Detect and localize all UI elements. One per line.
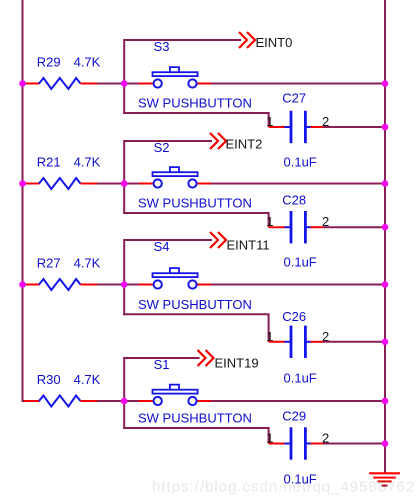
wire: capacitor C29 pin 2 to right rail (323, 443, 385, 445)
svg-text:EINT19: EINT19 (215, 355, 259, 370)
pushbutton switch S3 SW PUSHBUTTON (139, 67, 211, 88)
svg-text:EINT11: EINT11 (227, 238, 270, 253)
wire: node to capacitor C27 pin 1 (123, 113, 268, 127)
junction: node of S4 (121, 281, 128, 288)
svg-text:SW PUSHBUTTON: SW PUSHBUTTON (138, 96, 252, 111)
resistor label R27 (37, 256, 61, 271)
capacitor designator C28 (282, 193, 306, 208)
switch type label SW PUSHBUTTON (138, 196, 252, 211)
junction: right rail / capacitor C26 (382, 339, 389, 346)
wire: resistor to node (97, 83, 124, 85)
resistor value 4.7K (74, 256, 101, 271)
svg-text:4.7K: 4.7K (74, 256, 101, 271)
pin number 1 of C28 (266, 214, 273, 229)
wire: node to switch pin 1 (124, 83, 139, 85)
svg-text:S4: S4 (154, 239, 170, 254)
junction: node of S3 (121, 80, 128, 87)
capacitor C26 0.1uF (269, 326, 323, 358)
resistor label R30 (37, 372, 61, 387)
wire: capacitor C28 pin 2 to right rail (323, 226, 385, 228)
wire: node to capacitor C29 pin 1 (123, 428, 268, 444)
resistor value 4.7K (74, 55, 101, 70)
pushbutton switch S4 SW PUSHBUTTON (139, 268, 211, 289)
net label EINT0 (256, 35, 293, 50)
svg-text:S3: S3 (154, 39, 170, 54)
wire: switch pin 2 to right rail (211, 83, 385, 85)
wire: node to capacitor C26 pin 1 (123, 314, 268, 342)
switch designator S1 (154, 357, 170, 372)
svg-text:0.1uF: 0.1uF (284, 255, 317, 270)
wire: node to switch pin 1 (124, 284, 139, 286)
capacitor value 0.1uF (284, 155, 317, 170)
pin number 2 of C28 (322, 214, 329, 229)
junction: right rail / switch S2 (382, 180, 389, 187)
svg-text:0.1uF: 0.1uF (284, 472, 317, 487)
svg-text:R29: R29 (37, 55, 61, 70)
junction: node of S1 (121, 398, 128, 405)
junction: right rail / capacitor C27 (382, 124, 389, 131)
wire: resistor to node (97, 400, 124, 402)
wire: node vertical for S4 stage (123, 239, 125, 315)
svg-text:C26: C26 (282, 309, 306, 324)
switch designator S2 (154, 140, 170, 155)
wire: node to EINT11 port (123, 239, 212, 241)
resistor R29 4.7K (24, 78, 97, 89)
wire: right vertical ground rail (384, 0, 386, 473)
resistor R27 4.7K (24, 279, 97, 290)
wire: node to switch pin 1 (124, 400, 139, 402)
wire: node to switch pin 1 (124, 183, 139, 185)
svg-text:R21: R21 (37, 155, 61, 170)
capacitor value 0.1uF (284, 472, 317, 487)
svg-text:SW PUSHBUTTON: SW PUSHBUTTON (138, 297, 252, 312)
junction: node of S2 (121, 180, 128, 187)
junction: right rail / switch S3 (382, 80, 389, 87)
wire: switch pin 2 to right rail (211, 400, 385, 402)
junction: left rail / resistor R27 (19, 281, 26, 288)
resistor R21 4.7K (24, 178, 97, 189)
svg-text:R30: R30 (37, 372, 61, 387)
ground (369, 473, 400, 485)
wire: capacitor C26 pin 2 to right rail (323, 341, 385, 343)
wire: node to capacitor C28 pin 1 (123, 213, 268, 227)
wire: resistor to node (97, 284, 124, 286)
wire: node vertical for S2 stage (123, 140, 125, 214)
junction: right rail / capacitor C28 (382, 224, 389, 231)
svg-text:C27: C27 (282, 91, 306, 106)
junction: right rail / switch S1 (382, 398, 389, 405)
junction: right rail / switch S4 (382, 281, 389, 288)
capacitor C27 0.1uF (269, 111, 323, 143)
wire: node to EINT19 port (123, 357, 199, 359)
capacitor designator C26 (282, 309, 306, 324)
wire: node to EINT0 port (123, 39, 241, 41)
wire: switch pin 2 to right rail (211, 284, 385, 286)
svg-text:S1: S1 (154, 357, 170, 372)
pushbutton switch S1 SW PUSHBUTTON (139, 385, 211, 406)
junction: left rail / resistor R29 (19, 80, 26, 87)
svg-text:EINT2: EINT2 (226, 137, 263, 152)
wire: resistor to node (97, 183, 124, 185)
capacitor C29 0.1uF (269, 427, 323, 459)
pin number 1 of C26 (266, 329, 273, 344)
switch designator S3 (154, 39, 170, 54)
wire: node vertical for S3 stage (123, 39, 125, 114)
port chevron EINT19 (198, 350, 214, 366)
svg-text:R27: R27 (37, 256, 61, 271)
svg-text:0.1uF: 0.1uF (284, 371, 317, 386)
wire: node vertical for S1 stage (123, 357, 125, 429)
pin number 2 of C26 (322, 329, 329, 344)
switch designator S4 (154, 239, 170, 254)
switch type label SW PUSHBUTTON (138, 297, 252, 312)
port chevron EINT11 (210, 232, 226, 248)
pin number 2 of C27 (322, 114, 329, 129)
resistor R30 4.7K (24, 396, 97, 407)
svg-text:SW PUSHBUTTON: SW PUSHBUTTON (138, 196, 252, 211)
svg-text:C29: C29 (282, 409, 306, 424)
switch type label SW PUSHBUTTON (138, 411, 252, 426)
wire: switch pin 2 to right rail (211, 183, 385, 185)
capacitor value 0.1uF (284, 371, 317, 386)
net label EINT11 (227, 238, 270, 253)
svg-text:4.7K: 4.7K (74, 155, 101, 170)
resistor label R29 (37, 55, 61, 70)
capacitor designator C27 (282, 91, 306, 106)
svg-text:C28: C28 (282, 193, 306, 208)
capacitor value 0.1uF (284, 255, 317, 270)
port chevron EINT0 (239, 32, 255, 48)
svg-text:EINT0: EINT0 (256, 35, 293, 50)
resistor label R21 (37, 155, 61, 170)
junction: right rail / capacitor C29 (382, 440, 389, 447)
svg-text:S2: S2 (154, 140, 170, 155)
port chevron EINT2 (210, 133, 226, 149)
resistor value 4.7K (74, 372, 101, 387)
switch type label SW PUSHBUTTON (138, 96, 252, 111)
net label EINT2 (226, 137, 263, 152)
pin number 1 of C27 (266, 114, 273, 129)
pushbutton switch S2 SW PUSHBUTTON (139, 167, 211, 187)
wire: left vertical supply rail (23, 0, 25, 401)
junction: left rail / resistor R21 (19, 180, 26, 187)
resistor value 4.7K (74, 155, 101, 170)
svg-text:0.1uF: 0.1uF (284, 155, 317, 170)
net label EINT19 (215, 355, 259, 370)
wire: node to EINT2 port (123, 140, 212, 142)
capacitor designator C29 (282, 409, 306, 424)
svg-text:SW PUSHBUTTON: SW PUSHBUTTON (138, 411, 252, 426)
svg-text:4.7K: 4.7K (74, 55, 101, 70)
pin number 2 of C29 (322, 431, 329, 446)
wire: capacitor C27 pin 2 to right rail (323, 126, 385, 128)
svg-text:4.7K: 4.7K (74, 372, 101, 387)
pin number 1 of C29 (266, 431, 273, 446)
capacitor C28 0.1uF (269, 211, 323, 243)
